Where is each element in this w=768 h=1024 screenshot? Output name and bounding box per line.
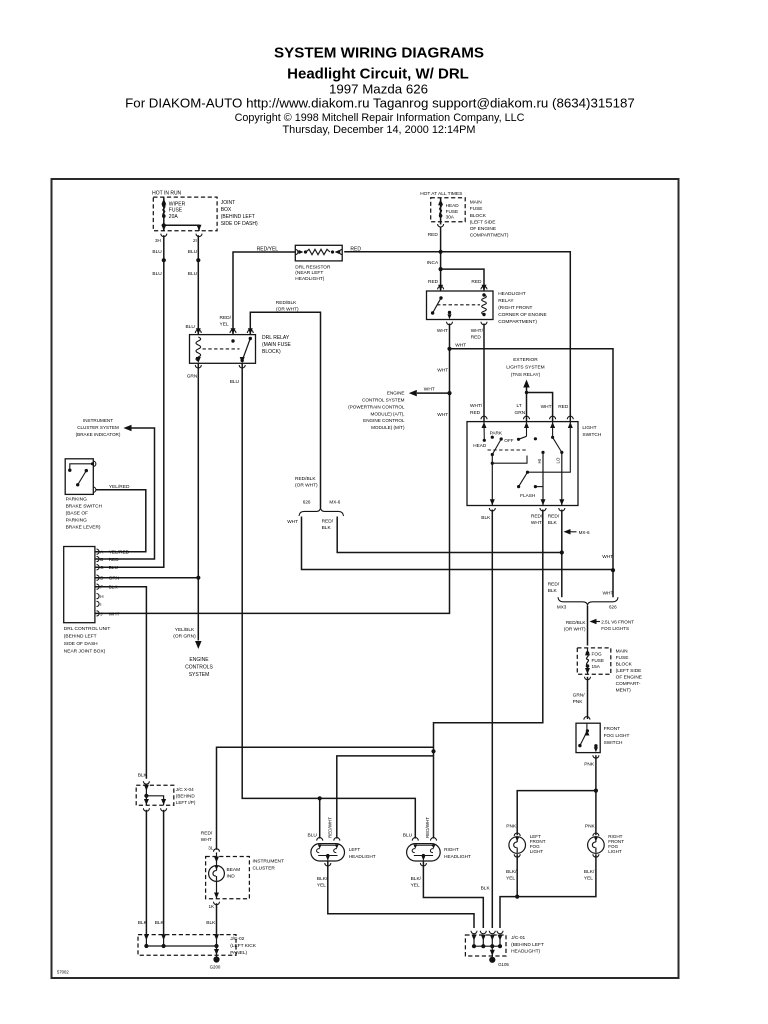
svg-text:LEFT I/P): LEFT I/P) (176, 800, 196, 805)
svg-text:2.5L V6 FRONT: 2.5L V6 FRONT (601, 620, 634, 625)
svg-text:RED/WHT: RED/WHT (425, 817, 430, 838)
svg-text:WHT: WHT (287, 519, 298, 525)
svg-text:(BASE OF: (BASE OF (66, 511, 88, 517)
svg-text:(BEHIND LEFT: (BEHIND LEFT (221, 214, 255, 220)
svg-text:LIGHT: LIGHT (530, 849, 544, 854)
dimmer LO to RED/BLK output (561, 452, 563, 505)
wire WHT/RED from relay coil to light switch (483, 324, 485, 422)
svg-text:BLK/: BLK/ (506, 869, 517, 875)
dimmer HI contact (541, 451, 544, 454)
svg-text:MX3: MX3 (557, 605, 567, 610)
junction connector J/C-02 (138, 935, 236, 956)
junction pin D to GRN wire (196, 576, 200, 580)
svg-text:RED/: RED/ (220, 315, 232, 321)
beam indicator output (216, 881, 218, 898)
svg-text:HEADLIGHT: HEADLIGHT (444, 854, 471, 859)
svg-text:WIPER: WIPER (169, 201, 186, 207)
svg-text:BLU: BLU (188, 249, 198, 255)
svg-text:WHT: WHT (531, 520, 542, 526)
wire YEL/RED from parking brake switch to DRL unit pin A (95, 490, 146, 552)
light switch BLK output path (491, 455, 493, 506)
svg-text:B: B (100, 557, 103, 562)
svg-text:RIGHT: RIGHT (444, 847, 459, 852)
svg-text:OF ENGINE: OF ENGINE (616, 675, 642, 681)
svg-text:WHT: WHT (455, 343, 466, 349)
svg-text:BLK/: BLK/ (411, 876, 422, 882)
light switch park contact (491, 436, 494, 439)
svg-text:MODULE) (M/T): MODULE) (M/T) (371, 425, 405, 430)
wire GRN pin D (95, 577, 198, 579)
svg-text:YEL: YEL (411, 883, 420, 889)
svg-text:BLK: BLK (481, 515, 491, 521)
svg-text:WHT: WHT (437, 412, 448, 418)
svg-text:LIGHT: LIGHT (582, 425, 596, 431)
svg-text:YEL: YEL (220, 322, 229, 328)
switch FRONT FOG LIGHT SWITCH (584, 717, 590, 720)
svg-text:YEL/RED: YEL/RED (109, 550, 130, 556)
junction PNK split to left fog light (594, 789, 598, 793)
dimmer lever to LO contact (553, 437, 562, 452)
svg-text:WHT: WHT (541, 404, 552, 410)
svg-text:BLOCK): BLOCK) (262, 349, 281, 355)
svg-text:(BEHIND LEFT: (BEHIND LEFT (64, 634, 97, 640)
wire RED from DRL unit pin B to instrument cluster (95, 428, 155, 559)
svg-text:FOG: FOG (592, 651, 603, 656)
svg-text:IND: IND (227, 874, 236, 880)
light switch head contact (483, 422, 485, 441)
svg-text:CLUSTER SYSTEM: CLUSTER SYSTEM (77, 425, 119, 430)
connector below fog fuse (585, 677, 591, 680)
arrow MX-6 pointer (564, 529, 571, 535)
svg-text:J/C-02: J/C-02 (230, 936, 244, 942)
svg-text:YEL: YEL (506, 875, 515, 881)
svg-text:I: I (100, 602, 101, 607)
module DRL CONTROL UNIT (64, 547, 95, 623)
fuse FOG FUSE 15A (587, 648, 589, 651)
wire BLK pin F to junction connector X-04 (95, 587, 146, 779)
svg-text:PNK: PNK (506, 824, 517, 830)
svg-text:RED: RED (109, 557, 120, 563)
junction BLU to left headlight (318, 796, 322, 800)
svg-text:(OR GRN): (OR GRN) (173, 634, 196, 640)
svg-text:JOINT: JOINT (221, 200, 235, 206)
wire BLK from light switch to JC-01 (491, 510, 493, 929)
svg-text:(OR WHT): (OR WHT) (295, 482, 318, 488)
svg-text:PNK: PNK (584, 762, 595, 768)
svg-text:MAIN: MAIN (470, 200, 483, 206)
svg-text:HEAD: HEAD (446, 203, 460, 208)
svg-text:BLK: BLK (548, 520, 558, 526)
svg-text:BRAKE SWITCH: BRAKE SWITCH (66, 504, 103, 510)
svg-text:RED: RED (350, 246, 361, 252)
svg-text:RED: RED (471, 279, 482, 285)
svg-text:RELAY: RELAY (498, 298, 514, 304)
junction connector J/C X-04 (143, 781, 149, 784)
wire RED branch to relay coil (441, 269, 484, 291)
dimmer switch common (552, 422, 554, 438)
svg-text:Thursday, December 14, 2000 1: Thursday, December 14, 2000 12:14PM (283, 124, 476, 136)
relay DRL RELAY (MAIN FUSE BLOCK) (190, 335, 256, 364)
svg-text:LIGHTS SYSTEM: LIGHTS SYSTEM (506, 364, 544, 370)
svg-text:PNK: PNK (573, 699, 584, 705)
svg-text:BLK: BLK (206, 920, 216, 926)
wire branch to 2I output (164, 225, 199, 231)
svg-text:BLK: BLK (481, 885, 491, 891)
svg-text:(OR WHT): (OR WHT) (276, 306, 299, 312)
ground G105 (489, 957, 495, 963)
svg-text:MX-6: MX-6 (329, 500, 340, 505)
wire PNK to left front fog light (517, 791, 596, 836)
svg-text:BLU: BLU (188, 271, 198, 277)
svg-text:(TNS RELAY): (TNS RELAY) (511, 372, 541, 378)
svg-text:BEAM: BEAM (227, 867, 241, 873)
junction RED/WHT (431, 749, 435, 753)
svg-text:SYSTEM: SYSTEM (189, 672, 210, 678)
svg-text:(LEFT KICK: (LEFT KICK (230, 943, 257, 949)
wire BLU from 2I to DRL relay (197, 235, 199, 334)
svg-text:3L: 3L (208, 846, 214, 851)
svg-text:Headlight Circuit, W/ DRL: Headlight Circuit, W/ DRL (287, 66, 469, 83)
svg-text:NEAR JOINT BOX): NEAR JOINT BOX) (64, 649, 106, 655)
svg-text:BLK: BLK (109, 585, 119, 591)
svg-text:J: J (100, 611, 102, 616)
svg-text:PNK: PNK (585, 824, 596, 830)
svg-text:Copyright © 1998 Mitchell Repa: Copyright © 1998 Mitchell Repair Informa… (235, 112, 525, 124)
svg-text:FOG LIGHTS: FOG LIGHTS (601, 626, 629, 631)
svg-text:1K: 1K (209, 904, 216, 909)
svg-text:GRN: GRN (109, 576, 120, 582)
junction to relay coil feed (439, 267, 443, 271)
svg-text:RED/: RED/ (548, 514, 560, 520)
svg-text:PARKING: PARKING (66, 497, 88, 503)
svg-text:RED/: RED/ (322, 519, 334, 525)
junction RED/BLK with 626 branch (560, 550, 564, 554)
ground G200 (213, 956, 219, 962)
svg-text:HOT AT ALL TIMES: HOT AT ALL TIMES (420, 191, 462, 197)
svg-text:CONTROLS: CONTROLS (185, 664, 213, 670)
svg-text:RED: RED (428, 232, 439, 238)
svg-text:BLU: BLU (186, 324, 196, 330)
svg-text:SYSTEM WIRING DIAGRAMS: SYSTEM WIRING DIAGRAMS (274, 45, 484, 62)
svg-text:SWITCH: SWITCH (582, 432, 601, 438)
svg-text:HOT IN RUN: HOT IN RUN (152, 191, 181, 197)
svg-text:RED/: RED/ (201, 831, 213, 837)
svg-text:MAIN: MAIN (616, 649, 629, 655)
wire WHT to light switch area (right vertical) (450, 349, 614, 597)
svg-text:HEADLIGHT: HEADLIGHT (498, 291, 526, 297)
connector below relay coil output (481, 322, 487, 325)
relay HEADLIGHT RELAY (427, 291, 494, 320)
svg-text:BLK/: BLK/ (584, 869, 595, 875)
svg-text:FUSE: FUSE (592, 658, 605, 663)
svg-text:GRN/: GRN/ (573, 692, 586, 698)
svg-text:(LEFT SIDE: (LEFT SIDE (470, 219, 496, 225)
svg-text:SIDE OF DASH): SIDE OF DASH) (221, 221, 258, 227)
DRL relay switch lever (242, 339, 250, 361)
svg-text:BLK: BLK (138, 920, 148, 926)
DRL relay switch contact for RED/YEL (231, 339, 234, 342)
wire WHT from headlight relay to DRL control unit pin J (95, 324, 450, 614)
svg-text:(NEAR LEFT: (NEAR LEFT (295, 270, 323, 276)
svg-text:DRL CONTROL UNIT: DRL CONTROL UNIT (64, 626, 111, 632)
wire BLK from beam indicator to J/C-02 (216, 903, 218, 934)
svg-text:RED/BLK: RED/BLK (295, 476, 316, 482)
svg-text:BLK: BLK (155, 920, 165, 926)
svg-text:MX-6: MX-6 (579, 530, 590, 535)
svg-text:3H: 3H (155, 238, 161, 243)
junction WHT to right WHT feed (447, 347, 451, 351)
svg-text:RED: RED (470, 410, 481, 416)
svg-text:(MAIN FUSE: (MAIN FUSE (262, 342, 292, 348)
svg-text:INSTRUMENT: INSTRUMENT (253, 858, 285, 864)
dimmer HI to RED/WHT output (542, 452, 544, 505)
svg-text:LO: LO (556, 457, 561, 463)
svg-text:G105: G105 (498, 962, 509, 967)
connector below head fuse (438, 224, 444, 227)
svg-text:626: 626 (609, 605, 617, 610)
wire LT GRN from light switch to TNS arrow (526, 387, 528, 422)
fuse WIPER FUSE 20A (163, 197, 165, 231)
svg-text:FUSE: FUSE (470, 206, 483, 212)
instrument cluster (dashed) (206, 857, 250, 899)
svg-text:OF ENGINE: OF ENGINE (470, 226, 496, 232)
svg-text:OFF: OFF (504, 438, 514, 443)
svg-text:(OR WHT): (OR WHT) (564, 627, 586, 632)
svg-text:FLASH: FLASH (520, 493, 535, 498)
svg-text:COMPARTMENT): COMPARTMENT) (470, 233, 509, 239)
junction WHT to engine control system (447, 391, 451, 395)
connector 3L to instrument cluster (214, 849, 220, 852)
svg-text:BLU: BLU (152, 271, 162, 277)
svg-text:BLK: BLK (548, 588, 558, 594)
svg-text:FUSE: FUSE (616, 655, 629, 661)
svg-text:HEAD: HEAD (473, 443, 487, 448)
svg-text:ENGINE CONTROL: ENGINE CONTROL (363, 418, 405, 423)
svg-text:DRL RESISTOR: DRL RESISTOR (295, 265, 331, 271)
svg-text:FUSE: FUSE (446, 209, 459, 214)
svg-text:WHT: WHT (602, 554, 613, 560)
headlight relay input connectors (438, 286, 444, 289)
svg-text:BLU: BLU (308, 832, 318, 838)
svg-text:LIGHT: LIGHT (608, 849, 622, 854)
light switch off contact and lever (500, 437, 503, 440)
svg-text:YEL: YEL (317, 883, 326, 889)
brace 626/MX-6 split (299, 507, 344, 516)
headlight relay coil (482, 295, 487, 315)
wire RED/BLK (OR WHT) fog feed (587, 606, 589, 646)
wire RED/WHT branch to beam indicator (217, 747, 434, 850)
svg-text:BOX: BOX (221, 207, 232, 213)
svg-text:WHT: WHT (437, 368, 448, 374)
brace MX3/626 merge (558, 597, 618, 606)
connector 3H (161, 234, 167, 237)
svg-text:BLU: BLU (109, 565, 119, 571)
svg-text:BLOCK: BLOCK (470, 213, 487, 219)
svg-text:GRN: GRN (515, 410, 526, 416)
svg-text:BLK: BLK (138, 773, 148, 779)
junction BLK/YEL fog lights (515, 895, 519, 899)
svg-text:RED/: RED/ (548, 581, 560, 587)
svg-text:57002: 57002 (57, 970, 69, 975)
svg-text:(BEHIND: (BEHIND (176, 793, 196, 798)
svg-text:1997 Mazda 626: 1997 Mazda 626 (329, 82, 428, 97)
svg-text:FOG LIGHT: FOG LIGHT (604, 733, 630, 739)
svg-text:BLU: BLU (230, 379, 240, 385)
wire RED/WHT from light switch to headlights and beam indicator (434, 510, 543, 839)
svg-text:(LEFT SIDE: (LEFT SIDE (616, 668, 642, 674)
svg-text:ENGINE: ENGINE (189, 657, 209, 663)
junction WHT feed at light switch right (611, 568, 615, 572)
wire BLK pair from J/C X-04 to J/C-02 (145, 810, 147, 935)
wire GRN from DRL relay to engine controls system (197, 363, 199, 640)
svg-text:CONTROL SYSTEM: CONTROL SYSTEM (362, 398, 405, 403)
arrow to engine controls system (195, 641, 202, 649)
junction inside joint box (162, 223, 166, 227)
svg-text:RED/WHT: RED/WHT (328, 817, 333, 838)
svg-text:CLUSTER: CLUSTER (253, 865, 276, 871)
svg-text:HEADLIGHT): HEADLIGHT) (295, 276, 324, 282)
wire RED/BLK from MX-6 branch to light switch RED/BLK output (337, 517, 562, 553)
svg-text:WHT/: WHT/ (470, 403, 483, 409)
svg-text:(POWERTRAIN CONTROL: (POWERTRAIN CONTROL (348, 404, 405, 409)
svg-text:WHT: WHT (109, 611, 120, 617)
svg-text:DRL RELAY: DRL RELAY (262, 335, 290, 341)
svg-text:BLU: BLU (152, 249, 162, 255)
light switch pole2 contacts (517, 438, 520, 441)
connector below fog switch (593, 755, 599, 758)
svg-text:HI: HI (537, 459, 542, 463)
wire RED from head fuse to headlight relay (440, 227, 442, 292)
svg-text:LT: LT (517, 403, 522, 409)
svg-text:HEADLIGHT: HEADLIGHT (349, 854, 376, 859)
bulb BEAM IND (216, 852, 218, 865)
svg-text:RED/BLK: RED/BLK (566, 620, 587, 625)
svg-text:2I: 2I (193, 238, 197, 243)
svg-text:INSTRUMENT: INSTRUMENT (83, 418, 113, 423)
wire RED/YEL from DRL relay to resistor (233, 252, 295, 335)
wire BLU from 3H to DRL control unit pin C (95, 235, 164, 567)
svg-text:CORNER OF ENGINE: CORNER OF ENGINE (498, 312, 547, 318)
svg-text:WHT/: WHT/ (471, 328, 484, 334)
splice on BLU wire 3H (162, 258, 166, 262)
wire RED inside switch to flash pivot (528, 422, 571, 473)
headlight relay output contact (448, 311, 451, 314)
svg-text:YEL: YEL (584, 875, 593, 881)
svg-text:WHT: WHT (603, 591, 614, 597)
DRL relay coil (196, 337, 201, 361)
svg-text:WHT: WHT (437, 328, 448, 334)
DRL relay output arrows (196, 357, 201, 363)
svg-text:FRONT: FRONT (604, 726, 621, 732)
svg-text:RED: RED (558, 404, 569, 410)
svg-text:PARK: PARK (490, 431, 503, 436)
svg-text:PANEL): PANEL) (230, 950, 247, 956)
wire PNK from fog switch to fog lights (595, 755, 597, 835)
headlight relay switch lever (439, 296, 442, 299)
svg-text:30A: 30A (446, 214, 455, 219)
wire WHT jumper into light switch (527, 393, 553, 422)
svg-text:ENGINE: ENGINE (387, 391, 405, 396)
svg-text:626: 626 (303, 500, 311, 505)
wire WHT from 626 branch to WHT junction (302, 517, 614, 570)
svg-text:RED/BLK: RED/BLK (276, 300, 297, 306)
svg-text:RED: RED (471, 335, 482, 341)
diagram border frame (52, 179, 679, 978)
wire RED/BLK from light switch to MX3/626 brace (561, 510, 563, 598)
svg-text:EXTERIOR: EXTERIOR (513, 357, 538, 363)
connector below relay switch output (447, 322, 453, 325)
svg-text:15A: 15A (592, 664, 601, 669)
svg-text:MODULE) (A/T),: MODULE) (A/T), (371, 411, 405, 416)
light switch input connectors (481, 416, 487, 419)
wire BLU branch to left headlight (319, 798, 321, 838)
svg-text:H: H (100, 594, 103, 599)
svg-text:BLOCK: BLOCK (616, 662, 633, 668)
wire RED from resistor to head fuse node and light switch (344, 252, 570, 422)
DRL control unit pin connectors (97, 549, 100, 554)
svg-text:J/C-01: J/C-01 (511, 935, 525, 941)
svg-text:YEL/RED: YEL/RED (109, 484, 130, 490)
svg-text:BRAKE LEVER): BRAKE LEVER) (66, 525, 101, 531)
resistor DRL RESISTOR (295, 245, 342, 261)
svg-text:LEFT: LEFT (349, 847, 361, 852)
svg-text:WHT: WHT (201, 837, 212, 843)
svg-text:RED/YEL: RED/YEL (257, 246, 279, 252)
main fuse block (dashed) (431, 198, 466, 222)
svg-text:MENT): MENT) (616, 688, 632, 694)
svg-text:(BRAKE INDICATOR): (BRAKE INDICATOR) (76, 432, 121, 437)
DRL relay input connectors (195, 330, 201, 333)
junction head fuse node to RED wire (439, 250, 443, 254)
svg-text:SIDE OF DASH: SIDE OF DASH (64, 641, 98, 647)
light switch output arrows and connectors (490, 499, 495, 505)
wire RED/WHT branch to left headlight (337, 756, 434, 839)
arrow 2.5L V6 front fog lights pointer (590, 619, 597, 625)
svg-text:G200: G200 (210, 965, 221, 970)
svg-text:J/C X-04: J/C X-04 (176, 787, 194, 792)
DRL relay mechanical link (dashed) (203, 348, 240, 350)
fog fuse block (dashed) (577, 648, 611, 674)
svg-text:GRN: GRN (187, 373, 198, 379)
svg-text:(BEHIND LEFT: (BEHIND LEFT (511, 942, 544, 948)
fuse HEAD FUSE 30A (440, 198, 442, 225)
flash lever (526, 471, 529, 474)
connector 2I (196, 234, 202, 237)
svg-text:BLU: BLU (403, 832, 413, 838)
wire GRN/PNK from fog fuse to fog switch (587, 677, 589, 719)
light switch dashed link (488, 449, 528, 451)
svg-text:PARKING: PARKING (66, 518, 88, 524)
svg-text:RED/: RED/ (531, 514, 543, 520)
svg-text:BLK: BLK (322, 525, 332, 531)
switch LIGHT SWITCH (467, 422, 578, 506)
wire WHT to engine control system arrow (417, 392, 450, 394)
svg-text:FUSE: FUSE (169, 208, 183, 214)
svg-text:SWITCH: SWITCH (604, 740, 623, 746)
splice on BLU wire 2I (196, 258, 200, 262)
svg-text:COMPART-: COMPART- (616, 681, 641, 687)
svg-text:YEL/BLK: YEL/BLK (175, 627, 195, 633)
svg-text:20A: 20A (169, 214, 179, 220)
svg-text:COMPARTMENT): COMPARTMENT) (498, 319, 537, 325)
svg-text:INCA: INCA (427, 260, 439, 266)
junction connector J/C-01 (471, 931, 477, 934)
headlight relay mechanical link (dashed) (437, 304, 480, 306)
wire BLU from DRL relay to headlights (242, 363, 415, 838)
svg-text:HEADLIGHT): HEADLIGHT) (511, 949, 540, 955)
switch PARKING BRAKE SWITCH (65, 459, 93, 495)
svg-text:BLK/: BLK/ (317, 876, 328, 882)
